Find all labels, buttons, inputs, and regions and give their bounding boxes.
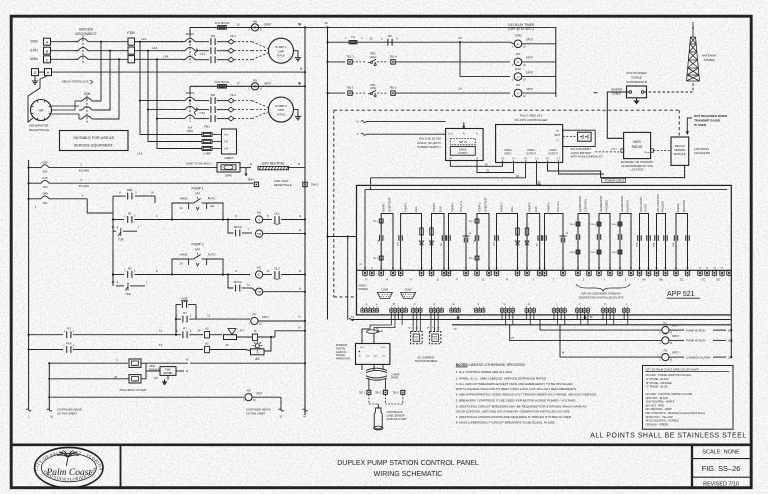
svg-text:PR2: PR2 (370, 52, 376, 56)
svg-text:8. MAIN & EMERGENCY CIRCUIT BR: 8. MAIN & EMERGENCY CIRCUIT BREAKERS TO … (456, 421, 555, 425)
svg-text:32: 32 (516, 174, 519, 178)
alarm strobe AS (252, 341, 262, 351)
svg-text:CT2: CT2 (433, 339, 437, 341)
svg-text:B: B (393, 302, 395, 306)
svg-text:“C” PHASE - BLUE: “C” PHASE - BLUE (646, 385, 668, 389)
input column GENERATOR RUNNING (611, 196, 633, 282)
terminal TB4-2 (303, 182, 307, 186)
svg-text:15: 15 (236, 23, 240, 27)
svg-text:A2: A2 (205, 327, 209, 331)
SCB pole 3 (82, 116, 92, 119)
svg-text:MONITOR: MONITOR (682, 200, 686, 212)
svg-text:H3: H3 (225, 147, 229, 151)
svg-text:ALL POINTS SHALL BE STAINLESS: ALL POINTS SHALL BE STAINLESS STEEL (590, 433, 746, 440)
svg-text:Y: Y (604, 278, 606, 282)
SCB pole 2 (82, 107, 92, 110)
dashed lead pole 3 to motor (234, 118, 252, 120)
svg-text:MODULE: MODULE (149, 368, 160, 371)
svg-text:AA: AA (642, 278, 646, 282)
svg-text:BB: BB (659, 278, 663, 282)
GR to SCB wires (52, 105, 80, 107)
svg-text:73: 73 (454, 327, 457, 331)
svg-text:RECEPTACLE: RECEPTACLE (29, 128, 49, 132)
svg-text:UNLESS OTHERWISE SPECIFIED: UNLESS OTHERWISE SPECIFIED (470, 363, 526, 367)
svg-text:H1: H1 (225, 133, 229, 137)
svg-text:R: R (506, 278, 508, 282)
svg-text:FLOAT: FLOAT (644, 203, 648, 212)
input column PUMP 1 FAIL (398, 202, 424, 282)
svg-text:N: N (298, 315, 300, 319)
wire 73 drop (510, 325, 657, 341)
svg-text:WITH A HANDLE PADLOCK TO MEET: WITH A HANDLE PADLOCK TO MEET OSHA LOCK-… (456, 387, 577, 391)
terminal group D (429, 309, 432, 312)
svg-text:“A” PHASE - BLACK: “A” PHASE - BLACK (646, 377, 670, 381)
svg-text:24: 24 (458, 87, 462, 91)
bus arrows (457, 316, 459, 320)
svg-text:ANTENNA: ANTENNA (702, 54, 718, 58)
PULS output subbox (450, 147, 475, 156)
svg-text:(LIMIT TO 60s MAX.): (LIMIT TO 60s MAX.) (186, 161, 211, 165)
svg-text:POWER SUPPLY: POWER SUPPLY (417, 145, 441, 149)
svg-text:CONTINUED ABOVE: CONTINUED ABOVE (246, 407, 271, 411)
svg-text:(+): (+) (449, 157, 452, 160)
dashed lead pole 3 to motor (234, 59, 252, 61)
svg-text:CONTINUOUS: CONTINUOUS (386, 411, 402, 414)
feeders to MCP2 (140, 42, 182, 101)
timer right rail (555, 27, 557, 97)
svg-text:L2A: L2A (152, 46, 157, 50)
svg-text:H: H (528, 302, 530, 306)
terminal group F (474, 309, 477, 312)
battery ground (167, 375, 169, 379)
motor PUMP 2 circle (269, 97, 294, 122)
motor PUMP 1 ground (294, 51, 299, 55)
svg-text:ON 240V - PHASE MONITOR COLORS: ON 240V - PHASE MONITOR COLORS (646, 373, 692, 377)
svg-text:SPDT: SPDT (526, 87, 534, 91)
svg-text:N: N (410, 278, 412, 282)
svg-text:N: N (299, 286, 301, 290)
svg-text:OFF: OFF (195, 191, 201, 195)
OL1 trip contact (263, 219, 272, 221)
wire 32 route (371, 161, 526, 186)
svg-text:CAP: CAP (133, 364, 138, 367)
svg-text:“B” PHASE - ORANGE: “B” PHASE - ORANGE (646, 381, 672, 385)
phase B wire to disconnect (51, 50, 79, 52)
vertical link rows 1-3 (459, 42, 461, 76)
fuse FU2 BUSS branch (190, 85, 305, 87)
svg-text:P: P (456, 278, 458, 282)
svg-text:SERVER: SERVER (674, 148, 685, 152)
svg-text:TB3-4: TB3-4 (611, 252, 617, 254)
level sensor dashed wires (368, 394, 370, 401)
svg-text:TDR2: TDR2 (514, 34, 522, 38)
svg-text:HAND: HAND (180, 197, 188, 201)
svg-text:TRANSMIT RADIO: TRANSMIT RADIO (694, 118, 721, 122)
svg-text:PAIRS: PAIRS (391, 377, 398, 380)
PR1 LOW float (352, 92, 366, 94)
alarm horn AH (228, 329, 236, 335)
dashed lead pole 2 to motor (234, 50, 252, 52)
motor PUMP 2 ground (294, 110, 299, 114)
svg-text:N-C: N-C (360, 347, 364, 349)
right info cell divider (691, 445, 693, 488)
svg-text:(+): (+) (501, 157, 504, 160)
svg-text:23: 23 (458, 36, 462, 40)
svg-text:1A: 1A (179, 206, 183, 210)
svg-text:DD: DD (716, 278, 720, 282)
svg-text:RUN: RUN (438, 206, 442, 212)
pump1 MCP feed wires (135, 41, 184, 43)
svg-text:PDB: PDB (127, 31, 135, 35)
city seal ring text bottom (41, 468, 97, 481)
svg-text:GENERATOR: GENERATOR (620, 196, 624, 212)
svg-text:RADIO: RADIO (632, 145, 643, 149)
svg-text:(+): (+) (524, 157, 527, 160)
R4A relay (460, 76, 510, 78)
terminal group E (450, 309, 453, 312)
wire 33 route (537, 161, 542, 185)
svg-text:NOTES:: NOTES: (456, 363, 469, 367)
input column PUMP 2 OVERTEMP (468, 197, 491, 281)
left hot rail (28, 160, 30, 410)
svg-text:GROUND - GREEN: GROUND - GREEN (646, 422, 669, 426)
svg-text:RECEPTACLE: RECEPTACLE (274, 183, 292, 187)
M1 contact pole 3 (198, 59, 209, 61)
svg-text:SLIMLINE 10 SER: SLIMLINE 10 SER (386, 418, 406, 421)
radio to server dashed (653, 150, 671, 152)
R7 NO contact row2 (176, 334, 181, 336)
svg-text:N: N (298, 325, 300, 329)
left outer drop to M bus (347, 237, 349, 320)
CT CT1 (195, 49, 198, 56)
MDS radio box (624, 132, 651, 158)
svg-text:PUMP #1 RUN: PUMP #1 RUN (686, 328, 705, 332)
OL1 element pole 3 (217, 59, 228, 61)
svg-text:SUPPRESSOR: SUPPRESSOR (626, 80, 648, 84)
R7 coil (251, 317, 258, 324)
svg-text:SPDT: SPDT (672, 351, 679, 355)
svg-text:A3: A3 (205, 341, 209, 345)
A3 terminal (205, 346, 210, 352)
svg-text:13: 13 (159, 343, 163, 347)
M2 aux + hour meter row (235, 285, 237, 292)
svg-text:S: S (532, 278, 534, 282)
svg-text:(SPR): (SPR) (225, 175, 232, 178)
svg-text:MDS: MDS (633, 140, 641, 144)
svg-text:SCALE: NONE: SCALE: NONE (702, 450, 740, 456)
svg-text:PUMP 1: PUMP 1 (450, 202, 454, 212)
svg-text:1A: 1A (179, 261, 183, 265)
wires disconnect to PDB (91, 41, 128, 43)
RTU enclosure box (357, 185, 732, 315)
svg-text:N: N (298, 162, 300, 166)
input column 24V CONTROL FAILURE (653, 193, 668, 281)
dashed lead pole 1 to motor (234, 41, 252, 43)
svg-text:PUMP 2: PUMP 2 (547, 202, 551, 212)
svg-text:PIGGYBACK ON OEM: PIGGYBACK ON OEM (120, 388, 147, 392)
svg-text:22: 22 (369, 36, 373, 40)
service disconnect pole B (78, 47, 88, 50)
OL2 element pole 2 (217, 109, 228, 111)
svg-text:4. ADD APPROPRIATELY SIZED 480: 4. ADD APPROPRIATELY SIZED 480/120 VOLT … (456, 393, 597, 397)
input column PUMP 2 FAIL (494, 202, 520, 282)
svg-text:FU1 BUSS: FU1 BUSS (215, 21, 230, 25)
svg-text:LOW FUEL: LOW FUEL (584, 198, 588, 212)
neutral wire H to right (52, 71, 306, 73)
svg-text:UDS1100-BR: UDS1100-BR (694, 151, 710, 155)
phoenix box legs (361, 364, 363, 370)
input column PHASE MONITOR (672, 200, 690, 282)
FB1 fuse 1 (202, 133, 212, 137)
PUMP 2 selector switch (189, 258, 194, 260)
svg-text:E: E (453, 302, 455, 306)
SCB pole 1 (82, 98, 92, 101)
svg-text:FH: FH (351, 35, 355, 39)
battery symbol box (578, 132, 592, 141)
svg-text:(+): (+) (556, 130, 559, 133)
terminal group A (361, 309, 364, 312)
relay R1 (662, 327, 669, 334)
svg-text:3. ALL CIRCUIT BREAKERS EXCEPT: 3. ALL CIRCUIT BREAKERS EXCEPT MAIN AND … (456, 382, 574, 386)
svg-text:R1: R1 (128, 211, 132, 215)
svg-text:TB4-1: TB4-1 (247, 177, 255, 181)
panel dashed enclosure left (333, 110, 335, 297)
svg-text:12VDC BATTERY: 12VDC BATTERY (571, 151, 592, 155)
pump2 auto wire (207, 259, 223, 275)
svg-text:POLYPHASER: POLYPHASER (626, 71, 647, 75)
svg-text:#14 AWG: #14 AWG (79, 185, 89, 188)
svg-text:COM2: COM2 (404, 288, 412, 291)
svg-text:N: N (299, 214, 301, 218)
R4 relay (514, 89, 522, 97)
svg-text:DEVICE: DEVICE (675, 144, 685, 148)
svg-text:1 AMP: 1 AMP (203, 152, 211, 156)
input column PUMP 1 RUN (429, 202, 446, 282)
input column PUMP 1 IN H-O-A (446, 201, 472, 282)
svg-text:SPDT: SPDT (526, 37, 534, 41)
dashed link ups to battery (563, 136, 578, 138)
svg-text:C: C (414, 302, 416, 306)
svg-text:TTB: TTB (378, 239, 380, 244)
OL2 element pole 1 (217, 100, 228, 102)
svg-text:PUMP #2 RUN: PUMP #2 RUN (686, 339, 705, 343)
svg-text:(-): (-) (512, 157, 515, 160)
svg-text:TDR: TDR (125, 292, 131, 296)
svg-text:SPDT: SPDT (526, 70, 534, 74)
svg-text:OL2: OL2 (230, 93, 236, 97)
svg-text:OL1: OL1 (274, 211, 280, 215)
svg-text:TROUBLE: TROUBLE (605, 199, 609, 212)
svg-text:AS DETERMINED BY SITE: AS DETERMINED BY SITE (621, 164, 653, 168)
terminal C (44, 56, 51, 63)
fig/revised divider (692, 476, 751, 478)
input column PUMP 2 IN H-O-A (542, 201, 569, 282)
svg-text:M1/1A: M1/1A (234, 225, 242, 229)
MCP2 pole 1 (185, 97, 195, 100)
svg-text:DC-UPS CONTROLLER: DC-UPS CONTROLLER (515, 118, 549, 122)
svg-text:TB2-1: TB2-1 (359, 392, 366, 394)
svg-text:R1: R1 (664, 321, 668, 325)
pump2 hand wire (172, 259, 189, 275)
breaker CB9 row1 (29, 167, 41, 169)
N rail right of pumps (304, 27, 306, 415)
svg-text:73: 73 (511, 336, 514, 340)
PDB block A (128, 38, 135, 45)
svg-text:AC CURRENT: AC CURRENT (417, 355, 435, 359)
svg-text:(-): (-) (476, 157, 479, 160)
svg-text:TM: TM (257, 290, 262, 294)
svg-text:60Hz: 60Hz (30, 57, 38, 61)
svg-text:Q: Q (437, 278, 439, 282)
svg-text:240V: 240V (30, 40, 39, 44)
relay2 feed (545, 320, 657, 341)
svg-text:HIGH LEVEL: HIGH LEVEL (639, 196, 643, 212)
OL1 element pole 1 (217, 41, 228, 43)
left inner drop to H terminals (364, 190, 366, 271)
R5 coil row (49, 396, 244, 398)
svg-text:1S-1: 1S-1 (381, 347, 386, 349)
svg-text:17: 17 (236, 81, 240, 85)
svg-text:R4: R4 (516, 83, 520, 87)
svg-text:TB3-4: TB3-4 (569, 224, 575, 226)
left terminals in box (363, 271, 367, 275)
svg-text:PULS UB10.241: PULS UB10.241 (520, 113, 542, 117)
UPS controller box (496, 125, 563, 163)
SCB output risers to phase buses (95, 42, 101, 101)
wire color chart box (643, 366, 734, 430)
device server box (671, 137, 689, 165)
M1 coil (256, 216, 263, 223)
svg-text:SPDT: SPDT (526, 56, 534, 60)
svg-text:TB1-J: TB1-J (373, 258, 378, 260)
svg-text:GENERATOR: GENERATOR (578, 196, 582, 212)
svg-text:PB1: PB1 (127, 188, 133, 192)
svg-text:R2: R2 (664, 332, 668, 336)
svg-text:ODOR CONTROL UNIT AND /OR STAN: ODOR CONTROL UNIT AND /OR STAND-BY GENER… (456, 409, 571, 413)
svg-text:TB1-1: TB1-1 (346, 86, 354, 90)
svg-text:120V NEUTRAL: 120V NEUTRAL (261, 162, 284, 166)
svg-text:PHASE: PHASE (676, 203, 680, 212)
terminal group H (525, 309, 528, 312)
svg-text:R7: R7 (252, 312, 256, 316)
OL2 trip contact (263, 274, 272, 276)
panel dashed enclosure bottom link (334, 296, 357, 298)
TB1-3 terminal (348, 60, 352, 64)
PDB block C (128, 56, 135, 63)
note arrow to server (687, 118, 692, 134)
svg-text:REVISED 7/10: REVISED 7/10 (703, 481, 739, 487)
right rail down (730, 315, 732, 357)
second rail (48, 363, 50, 410)
BH block (222, 129, 237, 154)
svg-text:AH: AH (240, 328, 244, 332)
relay R2 (662, 337, 669, 344)
input column HIGH LEVEL FLOAT (636, 196, 651, 281)
suitable for use box (60, 131, 129, 151)
svg-text:33: 33 (537, 180, 540, 184)
svg-text:24V CONTROL: 24V CONTROL (656, 193, 660, 212)
svg-text:N: N (250, 162, 252, 166)
svg-text:TDR: TDR (118, 238, 124, 242)
svg-text:GMDX: GMDX (225, 156, 234, 160)
svg-text:24VDC HOT - YELLOW: 24VDC HOT - YELLOW (646, 415, 674, 419)
svg-text:EPSBR: EPSBR (164, 371, 173, 375)
spare terminal pairs right (698, 271, 702, 275)
svg-text:13: 13 (207, 314, 211, 318)
terminal group B (390, 309, 393, 312)
svg-text:20A: 20A (43, 170, 48, 174)
svg-text:OL1: OL1 (230, 34, 236, 38)
svg-text:GENERATOR IS INSTALLED ON SITE: GENERATOR IS INSTALLED ON SITE (578, 296, 623, 300)
svg-text:24VDC NEUTRAL - PURPLE: 24VDC NEUTRAL - PURPLE (646, 419, 679, 423)
R3 relay (514, 58, 522, 66)
svg-text:26: 26 (50, 415, 54, 419)
svg-text:F: F (478, 302, 480, 306)
dashed lead pole 1 to motor (234, 100, 252, 102)
svg-text:GENERATOR: GENERATOR (29, 124, 49, 128)
76 terminal (253, 334, 258, 340)
svg-text:GENERATOR: GENERATOR (599, 196, 603, 212)
svg-text:LOW: LOW (370, 86, 377, 90)
svg-text:TRANSFORMERS: TRANSFORMERS (415, 359, 438, 363)
pump1 branch N connection (304, 26, 306, 28)
second bus (452, 324, 731, 326)
M1 contact pole 1 (198, 41, 209, 43)
svg-text:R7: R7 (183, 327, 187, 331)
svg-text:TB2-2: TB2-2 (375, 392, 382, 394)
svg-text:TOWER: TOWER (703, 58, 715, 62)
TB1-2 terminal (377, 92, 388, 94)
svg-text:N: N (463, 132, 465, 135)
svg-text:N: N (186, 357, 188, 361)
svg-text:ASB: ASB (182, 297, 188, 301)
svg-text:TB1-J: TB1-J (468, 221, 473, 223)
svg-text:FIG. SS–26: FIG. SS–26 (702, 464, 741, 473)
pump1 auto wire (207, 203, 223, 220)
svg-text:R4A: R4A (515, 67, 521, 71)
battery row N wire (146, 362, 250, 364)
svg-text:3PDT: 3PDT (264, 81, 272, 85)
phoenix input wires (344, 315, 357, 344)
svg-text:31: 31 (486, 169, 489, 173)
svg-text:R3: R3 (516, 52, 520, 56)
timer row2 wire (328, 61, 346, 63)
svg-text:CB9: CB9 (42, 160, 48, 164)
dashed lead pole 2 to motor (234, 109, 252, 111)
fuse FU1 BUSS branch (190, 26, 305, 28)
svg-text:(-): (-) (476, 132, 479, 135)
terminal group I (552, 309, 555, 312)
hour meter TM2 (256, 288, 263, 295)
svg-text:LOCATION: LOCATION (630, 168, 643, 172)
polyphaser box (627, 86, 647, 98)
svg-text:TB1-2: TB1-2 (389, 86, 397, 90)
CAP module 2 (129, 375, 141, 383)
svg-text:6. ADDITIONAL CIRCUIT BREAKERS: 6. ADDITIONAL CIRCUIT BREAKERS MAY BE RE… (456, 404, 587, 408)
svg-text:K: K (604, 302, 606, 306)
PUMP 1 selector switch (189, 202, 194, 204)
svg-text:H: H (365, 278, 367, 282)
svg-text:(+): (+) (546, 157, 549, 160)
CT1 sensor box (411, 332, 423, 344)
svg-text:SET IN: SET IN (459, 141, 467, 144)
timer top wire to N corner (304, 26, 306, 28)
svg-text:L(+): L(+) (448, 132, 453, 135)
M2 contact pole 2 (198, 109, 209, 111)
svg-text:C: C (46, 58, 49, 62)
terminal H (45, 69, 52, 76)
isolation transformer coils (366, 368, 387, 370)
